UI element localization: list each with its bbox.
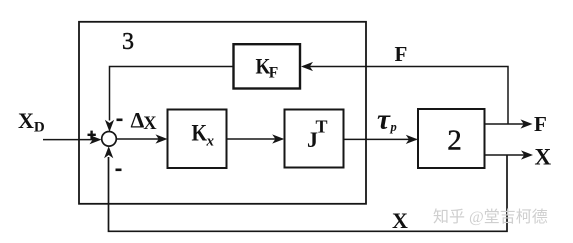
summing junction — [102, 132, 117, 147]
wire K_F to junction — [110, 67, 234, 121]
block K_F — [234, 44, 301, 88]
block J_T — [285, 110, 344, 168]
svg-text:知乎 @堂吉柯德: 知乎 @堂吉柯德 — [433, 208, 548, 226]
svg-text:F: F — [269, 64, 278, 81]
svg-text:X: X — [535, 145, 552, 170]
svg-text:3: 3 — [122, 29, 134, 55]
label minus bottom — [116, 169, 122, 172]
svg-text:X: X — [143, 114, 157, 134]
svg-text:F: F — [395, 42, 408, 66]
label minus top — [117, 119, 123, 122]
label plus — [88, 134, 96, 136]
outer system box 3 — [79, 22, 366, 204]
block K_x — [168, 110, 227, 169]
svg-text:x: x — [206, 133, 215, 149]
wire junction to K_x — [116, 138, 165, 140]
svg-text:p: p — [390, 120, 397, 134]
wire F output — [485, 123, 531, 125]
svg-text:F: F — [534, 112, 547, 136]
block 2 — [418, 109, 485, 168]
wire x_D input — [43, 139, 99, 141]
svg-text:T: T — [316, 117, 328, 137]
wire K_x to J_T — [227, 138, 283, 140]
svg-text:X: X — [392, 208, 408, 233]
wire F feedback — [303, 67, 508, 125]
wire X output — [485, 154, 531, 156]
svg-text:2: 2 — [447, 124, 462, 156]
svg-text:K: K — [192, 120, 208, 146]
wire X feedback — [109, 155, 508, 231]
wire J_T to block 2 — [344, 138, 417, 140]
svg-text:τ: τ — [377, 104, 391, 136]
